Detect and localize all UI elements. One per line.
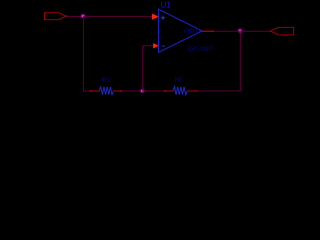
wire: corner to U1 - input bbox=[142, 45, 154, 47]
svg-text:OUT: OUT bbox=[184, 28, 200, 36]
output port pin-end dot bbox=[270, 30, 272, 32]
svg-text:Rf: Rf bbox=[175, 75, 183, 84]
input port pin-end dot bbox=[65, 15, 67, 17]
wire: corner up to output junction C bbox=[239, 31, 241, 91]
wire: Rf to corner below output bbox=[197, 90, 241, 92]
wire: Rs to junction B bbox=[121, 90, 142, 92]
wire: bottom-left corner to Rs bbox=[83, 90, 91, 92]
arrowhead at U1 - input bbox=[153, 43, 159, 48]
wire: junction A down to bottom rail bbox=[82, 16, 84, 91]
U1 + input mark bbox=[161, 16, 165, 20]
resistor Rf bbox=[164, 87, 197, 95]
wire: junction B up to U1 - input bbox=[142, 46, 144, 91]
resistor Rs bbox=[90, 87, 122, 95]
junction A (input node) bbox=[80, 13, 86, 19]
U1 - input mark bbox=[162, 45, 166, 47]
op-amp U1 bbox=[159, 9, 203, 52]
wire: junction B to Rf bbox=[142, 90, 164, 92]
output port bbox=[270, 27, 293, 35]
arrowhead at U1 + input bbox=[152, 14, 159, 20]
U1 output pin stub bbox=[202, 30, 214, 32]
svg-text:U1: U1 bbox=[161, 0, 171, 9]
wire: input port to junction A bbox=[66, 15, 83, 17]
junction C (output node) bbox=[237, 28, 243, 34]
wire: output pin to output port bbox=[214, 30, 270, 32]
junction B (feedback node) bbox=[139, 88, 145, 94]
wire: junction A to U1 + input bbox=[83, 15, 152, 17]
svg-text:Rs: Rs bbox=[102, 75, 111, 84]
input port bbox=[45, 13, 67, 20]
svg-text:OP AMP: OP AMP bbox=[188, 46, 213, 53]
